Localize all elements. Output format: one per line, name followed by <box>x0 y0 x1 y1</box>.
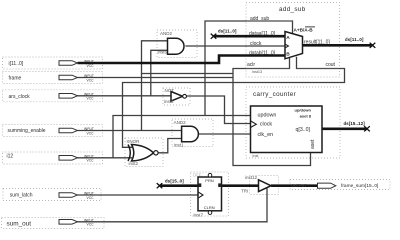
node ds[11..0] dataa X <box>211 34 217 39</box>
svg-text:inst: inst <box>253 154 260 158</box>
wire and6 in2 from ars_clock <box>151 50 168 96</box>
svg-text:ds[11..0]: ds[11..0] <box>218 28 237 33</box>
wire aclr aset net from frame <box>233 58 311 166</box>
pin box sum_out <box>2 218 104 229</box>
counter clock triangle <box>251 121 257 128</box>
adder symbol trapezoid <box>285 32 303 59</box>
and2 gate inst6 <box>168 38 185 54</box>
dff prn bubble <box>208 173 212 177</box>
wire sum_latch to dff clock <box>78 194 199 196</box>
box add_sub megafunction <box>246 3 340 78</box>
svg-text:inst3: inst3 <box>164 99 174 104</box>
bus result to ds[11..0] <box>303 44 373 47</box>
svg-text:aclr: aclr <box>247 62 255 68</box>
svg-text:dataa[11..0]: dataa[11..0] <box>249 31 276 37</box>
svg-text:sum_out: sum_out <box>7 221 32 228</box>
svg-text:aset 8: aset 8 <box>300 114 312 119</box>
input pin i[11..0] <box>59 61 78 66</box>
svg-text:B: B <box>286 51 290 57</box>
svg-text:PRN: PRN <box>205 178 214 183</box>
not gate inst3 <box>171 92 183 102</box>
pin box ars_clock <box>3 90 103 102</box>
bus dff q to tri in <box>222 184 259 187</box>
svg-text:ars_clock: ars_clock <box>9 94 31 100</box>
svg-text:sum_latch: sum_latch <box>10 192 33 198</box>
svg-text:inst2: inst2 <box>129 161 139 166</box>
pin box frame <box>3 72 103 84</box>
svg-text:AND2: AND2 <box>160 31 173 36</box>
input pin i12 <box>59 156 78 161</box>
wire gated clock to add_sub clock <box>185 45 285 47</box>
box carry_counter megafunction <box>246 87 340 158</box>
input pin sum_latch <box>59 193 78 198</box>
node ds[15..0] X <box>157 183 163 188</box>
wire frame net <box>78 77 234 79</box>
svg-text:clock: clock <box>250 41 262 47</box>
bus ds[15..0] to dff d <box>160 184 199 187</box>
svg-text:ds[15..0]: ds[15..0] <box>165 178 184 183</box>
svg-text:ds[15..12]: ds[15..12] <box>344 121 366 126</box>
port stub add_sub <box>246 20 293 22</box>
input pin summing_enable <box>59 128 78 133</box>
svg-text:ds[11..0]: ds[11..0] <box>345 37 364 42</box>
output pin frame_sum <box>318 183 336 188</box>
svg-text:cout: cout <box>326 62 336 68</box>
bus q to ds[15..12] <box>322 128 367 131</box>
wire cout net <box>123 57 345 148</box>
bus i[11..0] to datab <box>78 56 286 64</box>
wire i12 pin to xnor <box>78 157 133 159</box>
input pin frame <box>59 75 78 80</box>
svg-text:XNOR: XNOR <box>126 139 140 144</box>
svg-text:clk_en: clk_en <box>258 132 274 138</box>
dff box <box>198 177 222 211</box>
port stub aclr <box>246 68 290 70</box>
svg-text:inst12: inst12 <box>245 175 258 180</box>
box XNOR inst2 <box>125 138 163 167</box>
wire xnor out to and1 in2 <box>159 139 182 153</box>
svg-text:add_sub: add_sub <box>279 6 306 13</box>
svg-text:clock: clock <box>260 121 273 127</box>
xnor gate inst2 <box>132 145 154 162</box>
svg-text:up/down: up/down <box>295 108 312 113</box>
node ds[15..12] X <box>364 126 370 131</box>
pin box i[11..0] <box>3 57 103 69</box>
svg-text:i[11..0]: i[11..0] <box>9 61 24 67</box>
svg-text:inst13: inst13 <box>252 70 262 74</box>
svg-text:frame_sum[15..0]: frame_sum[15..0] <box>341 183 378 189</box>
svg-text:TRI: TRI <box>241 188 248 193</box>
svg-text:aset: aset <box>310 139 316 149</box>
pin box sum_latch <box>3 189 101 201</box>
dff clrn bubble <box>208 211 212 215</box>
svg-text:q[3..0]: q[3..0] <box>296 127 311 133</box>
box AND2 inst6 <box>157 30 197 58</box>
svg-text:A: A <box>286 35 290 41</box>
wire sum_out to tri enable <box>78 188 268 222</box>
pin box i12 <box>3 152 103 164</box>
svg-text:updown: updown <box>258 113 277 119</box>
wire and1 out to clk_en <box>199 133 251 135</box>
and2 gate inst1 <box>182 126 199 142</box>
wire and6 in1 from summing_enable <box>142 41 168 131</box>
input pin ars_clock <box>59 94 78 99</box>
svg-text:datab[11..0]: datab[11..0] <box>249 50 276 56</box>
box NOT inst3 <box>163 88 190 105</box>
node ds[11..0] result X <box>370 43 376 48</box>
box DFF inst7 <box>191 172 229 216</box>
svg-text:VCC: VCC <box>87 223 95 227</box>
svg-text:AND2: AND2 <box>174 120 187 125</box>
bus ds[11..0] to dataa <box>214 35 286 38</box>
svg-text:VCC: VCC <box>87 196 95 200</box>
svg-text:VCC: VCC <box>87 159 95 163</box>
svg-text:i12: i12 <box>7 153 14 159</box>
box output pin frame_sum <box>290 180 390 190</box>
adder clock chevron <box>285 44 289 48</box>
svg-text:VCC: VCC <box>87 97 95 101</box>
wire ars_clock net <box>78 95 172 97</box>
svg-text:NOT: NOT <box>165 88 175 93</box>
svg-text:inst1: inst1 <box>174 142 184 147</box>
box AND2 inst1 <box>172 119 213 147</box>
tri buffer inst12 <box>259 180 272 192</box>
input pin sum_out <box>59 220 78 225</box>
wire add_sub control vertical <box>205 21 293 116</box>
wire y73 branch <box>142 73 234 75</box>
svg-text:carry_counter: carry_counter <box>253 91 296 98</box>
svg-text:VCC: VCC <box>87 131 95 135</box>
svg-text:VCC: VCC <box>87 64 95 68</box>
svg-text:OUTPUT: OUTPUT <box>291 183 307 187</box>
labels INPUT VCC x7 <box>84 60 94 227</box>
wire not out to counter clock <box>187 96 251 124</box>
pin box summing_enable <box>3 125 103 137</box>
svg-text:CLRN: CLRN <box>204 205 215 210</box>
svg-text:frame: frame <box>9 76 22 82</box>
port stub cout <box>297 68 340 70</box>
bus tri out to output pin <box>271 184 318 187</box>
svg-text:inst7: inst7 <box>194 213 204 218</box>
dff clock triangle <box>198 192 203 198</box>
counter box <box>251 106 323 153</box>
svg-text:summing_enable: summing_enable <box>8 128 46 134</box>
box TRI inst12 <box>250 176 279 195</box>
wire summing_enable net <box>78 130 182 132</box>
wire i12 to updown <box>113 116 251 158</box>
svg-text:A+B/A-B: A+B/A-B <box>294 28 314 33</box>
svg-text:result[11..0]: result[11..0] <box>304 39 330 45</box>
svg-text:VCC: VCC <box>87 78 95 82</box>
svg-text:inst6: inst6 <box>158 49 168 54</box>
